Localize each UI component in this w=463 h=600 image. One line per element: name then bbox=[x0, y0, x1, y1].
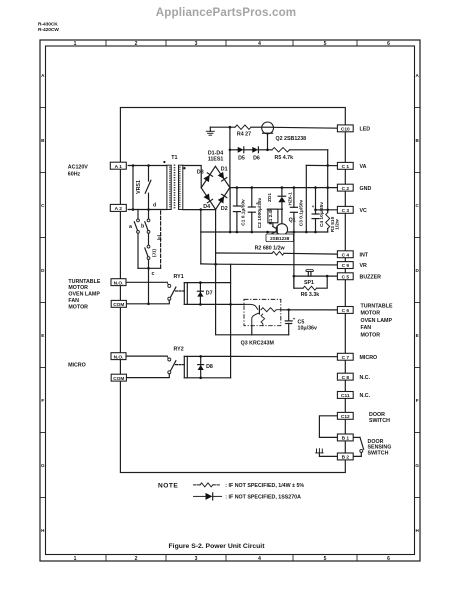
svg-text:C3 0.1μ/50v: C3 0.1μ/50v bbox=[298, 199, 304, 226]
svg-text:+: + bbox=[293, 316, 296, 321]
svg-text:1: 1 bbox=[74, 41, 77, 47]
wire A2 row bbox=[128, 209, 167, 211]
svg-text:E: E bbox=[416, 333, 419, 338]
diode D3 bbox=[203, 173, 212, 182]
label door switch bbox=[369, 412, 390, 424]
wire A1 row bbox=[128, 164, 167, 167]
svg-text:B 1: B 1 bbox=[342, 436, 350, 442]
switch d bbox=[145, 166, 156, 211]
svg-text:D6: D6 bbox=[253, 155, 260, 161]
svg-text:a: a bbox=[129, 224, 132, 230]
connector B2 bbox=[337, 453, 353, 461]
relay RY2 contact bbox=[126, 356, 184, 378]
svg-text:C11: C11 bbox=[341, 393, 350, 399]
svg-text:OVEN LAMP: OVEN LAMP bbox=[361, 318, 393, 324]
svg-text:D7: D7 bbox=[206, 291, 213, 297]
wire VR row bbox=[201, 263, 338, 266]
svg-text:VR: VR bbox=[360, 263, 368, 269]
svg-text:SWITCH: SWITCH bbox=[368, 451, 389, 457]
varistor VRS1 bbox=[132, 166, 142, 211]
svg-text:ZD1: ZD1 bbox=[267, 193, 273, 202]
svg-text:D2: D2 bbox=[221, 206, 228, 212]
svg-text:11ES1: 11ES1 bbox=[208, 156, 224, 162]
label turntable motor right bbox=[361, 304, 393, 339]
svg-text:Q2 2SB1238: Q2 2SB1238 bbox=[276, 136, 307, 142]
wire bridge corner drop bbox=[229, 188, 232, 234]
svg-text:COM: COM bbox=[113, 376, 124, 382]
wire GND rail bbox=[230, 186, 338, 189]
wire B2 to ground bbox=[319, 453, 337, 457]
svg-text:GND: GND bbox=[360, 186, 372, 192]
svg-text:6: 6 bbox=[387, 41, 390, 47]
svg-text:C4 10μ/35v: C4 10μ/35v bbox=[319, 202, 325, 227]
connector C2 bbox=[337, 184, 371, 192]
svg-text:TURNTABLE: TURNTABLE bbox=[361, 304, 393, 310]
svg-text:C 7: C 7 bbox=[342, 355, 350, 361]
svg-text:D: D bbox=[416, 268, 420, 273]
connector C6 bbox=[337, 307, 353, 315]
svg-text:B: B bbox=[41, 138, 45, 143]
resistor R4 27 bbox=[235, 125, 251, 138]
wire bottom rail bbox=[201, 231, 328, 234]
svg-text:VA: VA bbox=[360, 164, 367, 170]
svg-text:1/2w: 1/2w bbox=[335, 219, 341, 230]
svg-text:MOTOR: MOTOR bbox=[68, 285, 88, 291]
svg-text:A: A bbox=[41, 73, 45, 78]
svg-text:G: G bbox=[415, 463, 419, 468]
svg-text:T1: T1 bbox=[171, 155, 177, 161]
svg-text:LED: LED bbox=[360, 127, 371, 133]
svg-text:D4: D4 bbox=[203, 204, 210, 210]
diode D2 bbox=[218, 194, 227, 203]
svg-text:3: 3 bbox=[195, 556, 198, 562]
wire VA drop column bbox=[305, 165, 308, 233]
svg-text:C 4: C 4 bbox=[342, 252, 350, 258]
svg-text:C 5: C 5 bbox=[342, 274, 350, 280]
switch (J1) bbox=[145, 233, 157, 268]
svg-text:4: 4 bbox=[258, 41, 261, 47]
wire VR row branch down to RY1 bbox=[230, 264, 232, 304]
svg-text:B: B bbox=[416, 138, 420, 143]
zener diode ZD1 HZ6-1 bbox=[267, 188, 293, 210]
svg-text:C 9: C 9 bbox=[342, 263, 350, 269]
svg-text:AC120V: AC120V bbox=[68, 165, 88, 171]
node c bbox=[138, 267, 161, 277]
capacitor C2 1000u/35v bbox=[248, 188, 263, 232]
wire Q3 output row to C6 bbox=[281, 309, 338, 312]
svg-text:A: A bbox=[416, 73, 420, 78]
wire node c to COM row bbox=[147, 268, 150, 305]
svg-text:D: D bbox=[41, 268, 45, 273]
svg-text:Figure S-2. Power Unit Circuit: Figure S-2. Power Unit Circuit bbox=[169, 543, 266, 550]
svg-text:NOTE: NOTE bbox=[158, 483, 178, 490]
svg-text:6: 6 bbox=[387, 556, 390, 562]
svg-text:C1 0.1μ/50v: C1 0.1μ/50v bbox=[241, 199, 247, 226]
svg-text:c: c bbox=[152, 271, 155, 277]
capacitor C3 0.1u/50v bbox=[290, 188, 304, 232]
connector N.O. (RY1) bbox=[111, 279, 126, 287]
svg-text:H: H bbox=[41, 528, 45, 533]
label AC120V 60Hz bbox=[68, 165, 88, 178]
resistor R1 2.4k bbox=[267, 208, 282, 229]
svg-text:R-430CK: R-430CK bbox=[38, 22, 58, 28]
svg-text:D5: D5 bbox=[238, 155, 245, 161]
connector C9 bbox=[337, 262, 367, 270]
svg-text:SWITCH: SWITCH bbox=[369, 418, 390, 424]
wire VC row bbox=[316, 209, 338, 211]
svg-text:1: 1 bbox=[74, 556, 77, 562]
connector C1 bbox=[337, 162, 366, 170]
svg-text:A 1: A 1 bbox=[115, 164, 123, 170]
svg-text:C12: C12 bbox=[341, 414, 350, 420]
svg-text:H: H bbox=[416, 528, 420, 533]
svg-text:(J1): (J1) bbox=[151, 248, 156, 257]
svg-text:D3: D3 bbox=[197, 169, 204, 175]
wire Q3 emitter to supply row bbox=[251, 326, 253, 335]
connector A2 bbox=[110, 204, 126, 212]
svg-text:Q3 KRC243M: Q3 KRC243M bbox=[241, 341, 275, 347]
wire secondary top to bridge bbox=[183, 166, 201, 188]
svg-text:C10: C10 bbox=[341, 127, 350, 133]
wire RY1 to RY2 column bbox=[230, 304, 232, 377]
svg-text:D8: D8 bbox=[206, 364, 213, 370]
wire C3 column to buzzer bbox=[293, 232, 296, 288]
svg-text:HZ6-1: HZ6-1 bbox=[287, 192, 293, 206]
svg-text:MOTOR: MOTOR bbox=[68, 304, 88, 310]
wire bridge negative long column bbox=[216, 253, 289, 335]
wire R5 drop column with R3 bbox=[326, 150, 329, 213]
svg-text:: IF NOT SPECIFIED, 1SS270A: : IF NOT SPECIFIED, 1SS270A bbox=[225, 495, 301, 501]
svg-text:MICRO: MICRO bbox=[68, 363, 86, 369]
wire D5 row bbox=[230, 149, 238, 151]
wire R4 to Q2 bbox=[251, 126, 262, 128]
diode D7 bbox=[197, 281, 212, 305]
connector C5 bbox=[337, 273, 381, 281]
note legend bbox=[158, 483, 304, 501]
svg-text:4: 4 bbox=[258, 556, 261, 562]
svg-text:R6 3.3k: R6 3.3k bbox=[301, 292, 320, 298]
relay RY1 coil box bbox=[174, 274, 231, 304]
svg-text:2: 2 bbox=[135, 556, 138, 562]
wire secondary bottom to bridge bbox=[183, 208, 216, 211]
svg-text:: IF NOT SPECIFIED, 1/4W ± 5%: : IF NOT SPECIFIED, 1/4W ± 5% bbox=[225, 483, 304, 489]
diode D4 bbox=[203, 194, 212, 203]
ground (top) bbox=[206, 127, 214, 135]
wire RY1 bottom row to Q3 bbox=[229, 303, 244, 306]
svg-text:10μ/36v: 10μ/36v bbox=[298, 326, 317, 332]
connector C7 bbox=[337, 353, 377, 361]
svg-text:AppliancePartsPros.com: AppliancePartsPros.com bbox=[156, 6, 297, 19]
svg-text:R1 2.4k: R1 2.4k bbox=[268, 208, 273, 225]
svg-text:R2 680 1/2w: R2 680 1/2w bbox=[255, 246, 286, 252]
wire bridge positive column bbox=[229, 127, 232, 187]
resistor R5 4.7k bbox=[272, 148, 293, 161]
svg-text:FAN: FAN bbox=[361, 325, 372, 331]
svg-text:G: G bbox=[41, 463, 45, 468]
svg-text:C 8: C 8 bbox=[342, 375, 350, 381]
svg-text:B 2: B 2 bbox=[342, 455, 350, 461]
svg-text:MICRO: MICRO bbox=[360, 355, 378, 361]
svg-text:(e): (e) bbox=[156, 234, 161, 240]
label turntable motor left bbox=[68, 279, 100, 311]
svg-text:R-420CW: R-420CW bbox=[38, 27, 59, 33]
relay RY2 coil box bbox=[174, 347, 231, 378]
connector N.O. (RY2) bbox=[111, 353, 126, 361]
door sensing switch bbox=[353, 437, 363, 456]
svg-text:N.O.: N.O. bbox=[114, 354, 124, 360]
svg-text:3: 3 bbox=[195, 41, 198, 47]
svg-text:FAN: FAN bbox=[68, 298, 79, 304]
connector C11 bbox=[337, 392, 370, 400]
mechanical link (dashed) bbox=[156, 211, 161, 268]
connector A1 bbox=[110, 162, 126, 170]
svg-text:BUZZER: BUZZER bbox=[360, 274, 382, 280]
svg-text:MOTOR: MOTOR bbox=[361, 311, 381, 317]
svg-text:VRS1: VRS1 bbox=[136, 180, 142, 194]
resistor R3 510 1/2w bbox=[326, 213, 341, 233]
svg-text:D1: D1 bbox=[221, 166, 228, 172]
svg-text:R4 27: R4 27 bbox=[237, 132, 251, 138]
wire VA row bbox=[306, 164, 337, 166]
svg-text:C 1: C 1 bbox=[342, 164, 350, 170]
svg-text:N.O.: N.O. bbox=[114, 280, 124, 286]
capacitor C4 10u/35v bbox=[312, 188, 325, 232]
svg-text:R5 4.7k: R5 4.7k bbox=[275, 155, 294, 161]
svg-text:N.C.: N.C. bbox=[360, 375, 371, 381]
svg-text:C: C bbox=[416, 203, 420, 208]
resistor R6 3.3k bbox=[294, 276, 327, 298]
svg-text:INT: INT bbox=[360, 252, 369, 258]
svg-text:OVEN LAMP: OVEN LAMP bbox=[68, 292, 100, 298]
svg-text:SP1: SP1 bbox=[304, 280, 314, 286]
svg-text:C 3: C 3 bbox=[342, 208, 350, 214]
svg-text:5: 5 bbox=[324, 41, 327, 47]
svg-text:d: d bbox=[153, 203, 156, 209]
label 2SB1238 bbox=[266, 234, 294, 242]
transistor Q1 bbox=[272, 209, 296, 235]
label door sensing switch bbox=[368, 439, 392, 457]
connector C12 bbox=[337, 412, 353, 420]
connector C10 bbox=[337, 125, 370, 133]
svg-text:N.C.: N.C. bbox=[360, 393, 371, 399]
wire R5 to corner column bbox=[289, 149, 327, 151]
svg-text:2SB1238: 2SB1238 bbox=[270, 236, 290, 241]
diode D1 bbox=[218, 172, 227, 181]
svg-text:C 2: C 2 bbox=[342, 186, 350, 192]
connector COM (RY2) bbox=[111, 374, 126, 382]
diode D6 bbox=[252, 147, 272, 161]
wire Q2 to C10 bbox=[273, 126, 337, 129]
transformer T1 bbox=[163, 155, 185, 210]
svg-text:F: F bbox=[41, 398, 44, 403]
diode bridge D1-D4 11ES1 bbox=[201, 150, 230, 209]
wire BUZZER row bbox=[294, 275, 338, 278]
svg-text:F: F bbox=[416, 398, 419, 403]
svg-text:60Hz: 60Hz bbox=[68, 171, 81, 177]
svg-text:VC: VC bbox=[360, 208, 368, 214]
switch a bbox=[129, 210, 139, 234]
svg-text:RY1: RY1 bbox=[174, 274, 184, 280]
svg-text:2: 2 bbox=[135, 41, 138, 47]
transistor Q2 bbox=[262, 122, 306, 150]
svg-text:COM: COM bbox=[113, 302, 124, 308]
svg-text:+: + bbox=[312, 204, 315, 209]
svg-text:Q1: Q1 bbox=[289, 218, 296, 224]
capacitor C1 0.1u/50v bbox=[233, 188, 246, 232]
connector C3 bbox=[337, 206, 367, 214]
diode D8 bbox=[198, 355, 213, 379]
wire ground to R4 bbox=[210, 126, 235, 129]
svg-text:RY2: RY2 bbox=[174, 347, 184, 353]
connector C4 bbox=[337, 251, 368, 259]
svg-text:A 2: A 2 bbox=[115, 206, 123, 212]
relay RY1 contact bbox=[126, 282, 184, 304]
svg-text:TURNTABLE: TURNTABLE bbox=[68, 279, 100, 285]
switch b bbox=[141, 210, 150, 234]
svg-text:C: C bbox=[41, 203, 45, 208]
svg-text:C2 1000μ/35v: C2 1000μ/35v bbox=[257, 197, 263, 228]
power unit board outline bbox=[120, 108, 345, 473]
buzzer SP1 bbox=[304, 270, 314, 287]
connector COM (RY1) bbox=[111, 300, 126, 308]
wire below switch a bbox=[137, 233, 139, 268]
svg-text:E: E bbox=[41, 333, 44, 338]
diode D5 bbox=[238, 147, 253, 161]
wire C12 to B1 loop bbox=[319, 416, 337, 438]
svg-text:5: 5 bbox=[324, 556, 327, 562]
svg-text:b: b bbox=[141, 224, 145, 230]
svg-text:MOTOR: MOTOR bbox=[361, 332, 381, 338]
wire MICRO row bbox=[231, 355, 338, 357]
svg-text:C 6: C 6 bbox=[342, 308, 350, 314]
wire secondary return column bbox=[200, 210, 202, 264]
transistor array Q3 KRC243M bbox=[241, 299, 281, 346]
wire INT row with resistor R2 680 1/2w bbox=[216, 209, 338, 255]
connector C8 bbox=[337, 373, 370, 381]
ground (door) bbox=[316, 449, 323, 453]
capacitor C5 10u/36v bbox=[285, 310, 317, 335]
connector B1 bbox=[337, 434, 353, 442]
